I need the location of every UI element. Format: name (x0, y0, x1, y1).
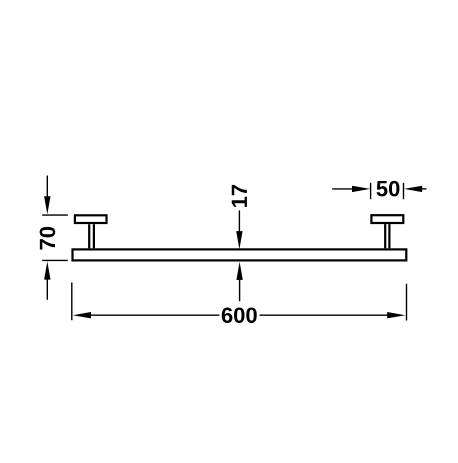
towel bar rail (73, 249, 407, 260)
dimension 50 right arrow line (421, 188, 427, 190)
dimension 600 left line segment (90, 314, 220, 316)
dimension 50 left arrow line (332, 188, 353, 190)
dimension 17 lower arrowhead (236, 262, 242, 280)
dimension 50 label (377, 181, 400, 197)
dimension 50 left arrowhead (352, 186, 370, 192)
dimension 50 right tick (403, 183, 405, 199)
dimension 70 upper arrow line (46, 176, 48, 199)
dimension 70 lower arrowhead (44, 261, 50, 279)
dimension 17 lower arrow line (239, 278, 241, 301)
dimension 70 upper arrowhead (44, 196, 50, 214)
right post stem (385, 224, 389, 248)
dimension 50 left tick (370, 183, 372, 199)
dimension 70 lower tick (42, 259, 68, 261)
left post cap (75, 215, 107, 223)
dimension 17 upper arrowhead (236, 231, 242, 249)
dimension 17 label (232, 185, 247, 207)
dimension 70 lower arrow line (46, 278, 48, 300)
dimension 600 label (222, 307, 257, 323)
dimension 600 right arrowhead (387, 312, 405, 318)
dimension 600 left arrowhead (73, 312, 91, 318)
left post stem (89, 224, 94, 248)
right post cap (371, 215, 403, 223)
dimension 600 right line segment (260, 314, 389, 316)
dimension 70 upper tick (42, 214, 68, 216)
dimension 70 label (40, 227, 56, 250)
dimension 600 right extension line (406, 284, 408, 321)
dimension 17 upper arrow line (238, 210, 240, 233)
dimension 600 left extension line (71, 282, 73, 320)
dimension 50 right arrowhead (404, 186, 422, 192)
